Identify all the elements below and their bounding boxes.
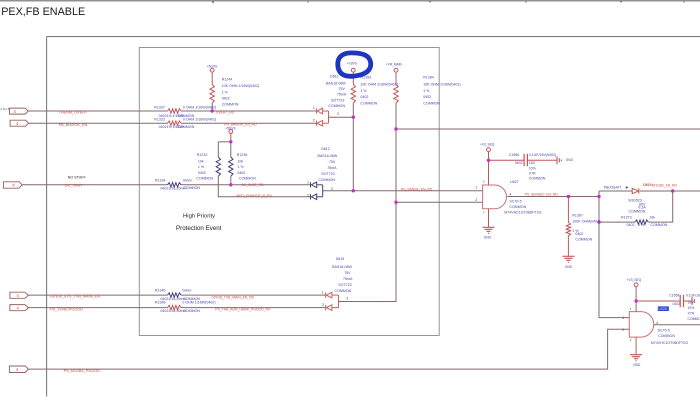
svg-text:10k: 10k: [198, 159, 204, 163]
svg-text:COMMON: COMMON: [239, 177, 256, 181]
resistor R1334: [168, 183, 182, 187]
svg-text:0402: 0402: [360, 95, 368, 99]
resistor R1337: [168, 109, 182, 113]
svg-text:75V: 75V: [344, 271, 351, 275]
resistor R1236: [229, 157, 233, 176]
svg-text:0402: 0402: [160, 309, 168, 313]
svg-text:GND: GND: [566, 158, 574, 162]
wire U627 output row: [507, 196, 599, 198]
svg-text:DC_OK6T: DC_OK6T: [65, 184, 83, 188]
svg-text:High Priority: High Priority: [183, 214, 215, 220]
wire row7 PS_M1GB2_PGOOD: [28, 329, 629, 369]
labels R1236: [237, 153, 256, 181]
ground bar after C1966: [557, 156, 561, 164]
svg-text:R1367: R1367: [572, 213, 583, 217]
power terminal +VR_MAIN (R1384): [394, 68, 398, 72]
svg-text:SOT723: SOT723: [331, 98, 344, 102]
power terminal +V3VS (R1353): [351, 68, 355, 72]
wire row6 PS_19V8: [28, 307, 325, 309]
svg-text:2: 2: [622, 328, 624, 332]
resistor R1353: [351, 85, 355, 104]
svg-text:COMMON: COMMON: [183, 309, 200, 313]
svg-text:4: 4: [509, 192, 511, 196]
svg-text:BAS16-08W: BAS16-08W: [332, 265, 352, 269]
svg-text:+5GVS: +5GVS: [207, 64, 217, 68]
wire R1232 R1236 top rail: [218, 134, 231, 185]
svg-text:SOT723: SOT723: [338, 283, 351, 287]
svg-text:R1236: R1236: [237, 153, 248, 157]
labels U62B: [627, 278, 689, 367]
svg-text:10K OHM 1/16W(0402): 10K OHM 1/16W(0402): [222, 84, 260, 88]
svg-text:0ohm: 0ohm: [182, 289, 191, 293]
port P6 PS_M1GB2_PGOOD: [9, 366, 28, 373]
svg-text:+V3VS: +V3VS: [347, 62, 357, 66]
diode D611: [316, 108, 328, 126]
svg-text:0402: 0402: [627, 223, 635, 227]
labels D612: [318, 147, 338, 182]
svg-text:0 OHM 1/16W(0402): 0 OHM 1/16W(0402): [183, 118, 216, 122]
wire D615 pin3 to R1384 net: [339, 301, 397, 303]
labels R1373: [621, 215, 668, 227]
svg-text:PS_SENSE_EN_RD: PS_SENSE_EN_RD: [401, 187, 433, 191]
resistor R1345: [168, 293, 182, 297]
ground below U627: [483, 227, 495, 233]
svg-text:COMMON: COMMON: [222, 102, 239, 106]
svg-text:COMMON: COMMON: [529, 177, 546, 181]
capacitor C1966: [489, 154, 557, 166]
svg-text:PS_19V8CPGOOD: PS_19V8CPGOOD: [50, 308, 83, 312]
svg-text:1: 1: [475, 186, 477, 190]
svg-text:0402: 0402: [160, 186, 168, 190]
svg-text:1 %: 1 %: [423, 89, 430, 93]
labels R1353: [347, 62, 398, 106]
svg-text:1 %: 1 %: [638, 223, 645, 227]
svg-text:AC_OK6T_RD: AC_OK6T_RD: [241, 183, 264, 187]
wire R1373 row: [599, 191, 673, 222]
svg-text:MFG_SHMODE_R_EN: MFG_SHMODE_R_EN: [237, 194, 273, 198]
diode D619: [632, 188, 639, 193]
svg-text:COMMON: COMMON: [658, 334, 675, 338]
svg-text:GPIO8_SYS_TVB_MAIN_EN: GPIO8_SYS_TVB_MAIN_EN: [50, 295, 100, 299]
frame line top: [0, 1, 700, 3]
svg-text:BAS16-08W: BAS16-08W: [318, 154, 338, 158]
svg-text:COMMON: COMMON: [688, 317, 700, 321]
svg-text:0402: 0402: [515, 161, 523, 165]
svg-text:R1373: R1373: [621, 215, 632, 219]
net label PBUOSA4T: [604, 186, 629, 190]
labels R1367: [565, 213, 601, 269]
svg-text:10%: 10%: [529, 166, 537, 170]
svg-text:4: 4: [12, 183, 15, 188]
svg-text:0402: 0402: [222, 97, 230, 101]
svg-text:PS_SENSE0_EN_RD: PS_SENSE0_EN_RD: [525, 192, 559, 196]
svg-text:+VR_MAIN: +VR_MAIN: [386, 62, 403, 66]
svg-text:3: 3: [337, 112, 339, 116]
wire row3 DC_OK6T: [22, 184, 310, 186]
svg-text:4: 4: [656, 321, 658, 325]
svg-text:SC70-5: SC70-5: [509, 199, 521, 203]
labels D611: [326, 75, 347, 109]
svg-text:2: 2: [475, 198, 477, 202]
svg-text:PS_M1GB2_PGOOD: PS_M1GB2_PGOOD: [64, 369, 101, 373]
svg-text:5: 5: [630, 307, 632, 311]
svg-text:GND: GND: [484, 236, 492, 240]
svg-text:SOT723: SOT723: [321, 172, 334, 176]
svg-text:10k: 10k: [649, 215, 655, 219]
svg-text:+5GVS: +5GVS: [225, 127, 235, 131]
port P3 DC_OK6T: [3, 182, 22, 188]
svg-text:10K OHM 1/16W(0402): 10K OHM 1/16W(0402): [423, 83, 461, 87]
resistor R1232: [216, 157, 220, 176]
svg-text:X7R: X7R: [688, 312, 695, 316]
ground below R1367: [562, 256, 574, 262]
svg-text:10%: 10%: [688, 306, 695, 310]
svg-text:R1232: R1232: [197, 153, 208, 157]
port P4 GPIO8: [10, 292, 28, 298]
capacitor C1659: [636, 295, 694, 307]
svg-text:R1384: R1384: [423, 76, 434, 80]
wire row5 GPIO8: [28, 294, 325, 296]
svg-text:M74VHC1GT08DFT2G: M74VHC1GT08DFT2G: [651, 341, 689, 345]
svg-text:3: 3: [346, 297, 348, 301]
svg-text:COMMON: COMMON: [629, 210, 646, 214]
wire D619 cathode to edge: [640, 190, 700, 192]
svg-text:2: 2: [307, 193, 309, 197]
svg-text:SC70-5: SC70-5: [658, 329, 670, 333]
svg-text:PS_TH8_AON_HSMK_PGOOD_RD: PS_TH8_AON_HSMK_PGOOD_RD: [215, 308, 271, 312]
svg-text:75V: 75V: [329, 160, 336, 164]
svg-text:R1345: R1345: [155, 289, 166, 293]
label texts row2 R1333: [154, 118, 257, 130]
svg-text:10K OHM 1/16W(0402): 10K OHM 1/16W(0402): [360, 83, 398, 87]
svg-text:4: 4: [13, 109, 16, 114]
svg-text:5: 5: [483, 180, 485, 184]
svg-text:1 %: 1 %: [198, 165, 205, 169]
svg-text:COMMON: COMMON: [360, 101, 377, 105]
svg-text:1: 1: [307, 181, 309, 185]
labels D615: [332, 257, 353, 293]
svg-text:4: 4: [16, 293, 19, 298]
wire row1 THERM_OVERT: [28, 110, 316, 112]
svg-text:D619: D619: [643, 183, 651, 187]
svg-text:COMMON: COMMON: [183, 186, 200, 190]
power terminal +V3_SEQ (U62B): [634, 283, 638, 287]
wire row V3VS_MAIN right: [396, 128, 700, 130]
port P5 PS_19V8: [10, 305, 28, 311]
svg-text:1 %: 1 %: [222, 90, 229, 94]
svg-text:0402: 0402: [575, 232, 583, 236]
svg-text:COMMON: COMMON: [651, 223, 668, 227]
svg-text:0402: 0402: [159, 125, 167, 129]
labels U62B highlighted refdes: [658, 306, 669, 311]
svg-text:1: 1: [322, 290, 324, 294]
svg-text:3: 3: [483, 210, 485, 214]
svg-text:U627: U627: [510, 180, 519, 184]
svg-text:0.1UF/16: 0.1UF/16: [686, 293, 700, 297]
resistor R1333: [168, 121, 182, 125]
svg-text:0402: 0402: [423, 95, 431, 99]
svg-text:PEX,FB ENABLE: PEX,FB ENABLE: [1, 6, 85, 18]
diode D615: [326, 292, 339, 310]
svg-text:COMMON: COMMON: [177, 125, 194, 129]
svg-text:1 %: 1 %: [360, 89, 367, 93]
svg-text:16V: 16V: [688, 301, 695, 305]
svg-text:COMMON: COMMON: [575, 238, 592, 242]
svg-text:R1334: R1334: [155, 178, 166, 182]
label texts row1 R1337: [154, 106, 234, 119]
svg-text:COMMON: COMMON: [196, 177, 213, 181]
svg-text:75mA: 75mA: [343, 277, 353, 281]
node junction dots: [211, 109, 675, 302]
wire vertical to U62B pin1: [599, 191, 629, 318]
labels C1966: [509, 153, 574, 181]
svg-text:X7R: X7R: [529, 172, 536, 176]
wire row4 MFG_SHMODE: [218, 176, 310, 197]
op-amp gate U627: [483, 152, 507, 228]
svg-text:75mA: 75mA: [337, 93, 347, 97]
power terminal +5GVS (R1232): [229, 130, 233, 134]
svg-text:COMMON: COMMON: [335, 289, 352, 293]
svg-text:R1333: R1333: [154, 118, 165, 122]
svg-text:+V3_SEQ: +V3_SEQ: [627, 278, 642, 282]
svg-text:U62B: U62B: [658, 307, 667, 311]
svg-text:0 OHM 1/16W(0402): 0 OHM 1/16W(0402): [182, 301, 215, 305]
svg-text:1: 1: [313, 106, 315, 110]
op-amp gate U62B: [629, 287, 700, 355]
wire net R1384 vertical: [395, 72, 397, 301]
svg-text:75V: 75V: [339, 87, 346, 91]
svg-text:GND: GND: [565, 265, 573, 269]
svg-text:D612: D612: [321, 147, 330, 151]
label texts row3 R1334: [155, 178, 264, 190]
svg-text:A,B,A,B: A,B,A,B: [0, 107, 10, 111]
label texts row6 R1348: [155, 301, 271, 314]
svg-text:1: 1: [622, 316, 624, 320]
labels R1384: [386, 62, 461, 105]
svg-text:2: 2: [322, 303, 324, 307]
wire row2 PB_BIASOK_EN: [29, 122, 317, 124]
svg-text:COMMON: COMMON: [509, 205, 526, 209]
resistor R1244: [210, 85, 214, 104]
svg-text:R1244: R1244: [222, 77, 233, 81]
svg-text:COMMON: COMMON: [328, 104, 345, 108]
svg-text:M74VHC1GT08DFT2G: M74VHC1GT08DFT2G: [504, 211, 542, 215]
power terminal +V3_SEQ (U627): [487, 148, 491, 152]
port P1 THERM_OVERT: [9, 108, 28, 114]
svg-text:OVERT_RD: OVERT_RD: [216, 111, 235, 115]
diode D612: [311, 182, 323, 200]
svg-text:GPIO8_TVB_MAIN_EN_RD: GPIO8_TVB_MAIN_EN_RD: [212, 295, 255, 299]
svg-text:0ohm: 0ohm: [183, 178, 192, 182]
svg-text:0402: 0402: [237, 171, 245, 175]
wire net R1244 vertical: [211, 72, 213, 111]
wire R1367 stub: [567, 197, 569, 257]
svg-text:+V3_SEQ: +V3_SEQ: [480, 142, 495, 146]
resistor R1348: [168, 305, 182, 309]
svg-text:C1966: C1966: [509, 153, 520, 157]
port P2 PB_BIASOK_EN: [10, 120, 29, 126]
wire U627 pin2 row: [396, 201, 483, 203]
svg-text:3: 3: [630, 338, 632, 342]
power terminal +5GVS (R1244): [210, 68, 214, 72]
label texts row5 R1345: [155, 289, 255, 301]
svg-text:0.1UF/16V(0402): 0.1UF/16V(0402): [529, 153, 557, 157]
svg-text:2: 2: [313, 119, 315, 123]
port net names: [50, 111, 100, 373]
svg-text:C1659: C1659: [669, 293, 679, 297]
resistor R1373: [635, 220, 648, 224]
wire net R1353 vertical: [352, 72, 354, 191]
svg-text:4: 4: [16, 121, 19, 126]
wire D611 pin3 to R1353: [329, 116, 354, 118]
annotation blue circle: [338, 53, 371, 76]
svg-text:R1348: R1348: [155, 301, 166, 305]
svg-text:COMMON: COMMON: [318, 178, 335, 182]
svg-text:R1337: R1337: [154, 106, 165, 110]
svg-text:D615: D615: [336, 257, 345, 261]
svg-text:4: 4: [16, 306, 19, 311]
svg-text:1 %: 1 %: [237, 165, 244, 169]
svg-text:COMMON: COMMON: [423, 101, 440, 105]
svg-text:0402: 0402: [673, 302, 681, 306]
svg-text:GND: GND: [633, 363, 641, 367]
svg-text:NO STUFF: NO STUFF: [68, 176, 87, 180]
wire D619 anode: [599, 190, 632, 192]
labels U627: [480, 142, 542, 214]
labels C1659: [669, 293, 700, 321]
ground below U62B: [630, 355, 642, 361]
svg-text:16V: 16V: [529, 161, 536, 165]
svg-text:10k: 10k: [237, 159, 243, 163]
svg-text:Protection Event: Protection Event: [176, 225, 222, 232]
svg-text:D611: D611: [330, 75, 338, 79]
svg-text:PB_BIASOK_EN: PB_BIASOK_EN: [59, 123, 88, 127]
svg-text:0 OHM 1/16W(0402): 0 OHM 1/16W(0402): [183, 106, 216, 110]
wire D612 pin3 row to U627 pin1: [323, 190, 483, 192]
svg-text:MI1GB2_EN_RD: MI1GB2_EN_RD: [652, 184, 678, 188]
svg-text:BAS16-08W: BAS16-08W: [326, 81, 346, 85]
svg-text:100K OHM(0402): 100K OHM(0402): [572, 219, 600, 223]
svg-text:4: 4: [16, 367, 19, 372]
resistor R1384: [394, 85, 398, 104]
resistor R1367: [566, 222, 570, 235]
svg-text:PBUOSA4T: PBUOSA4T: [604, 186, 622, 190]
svg-text:0402: 0402: [198, 171, 206, 175]
svg-text:THERM_OVERT: THERM_OVERT: [59, 111, 88, 115]
labels R1244: [207, 64, 259, 106]
labels R1232: [196, 127, 235, 181]
svg-text:75mA: 75mA: [327, 166, 337, 170]
svg-text:3: 3: [331, 187, 333, 191]
inner box: [139, 48, 439, 336]
